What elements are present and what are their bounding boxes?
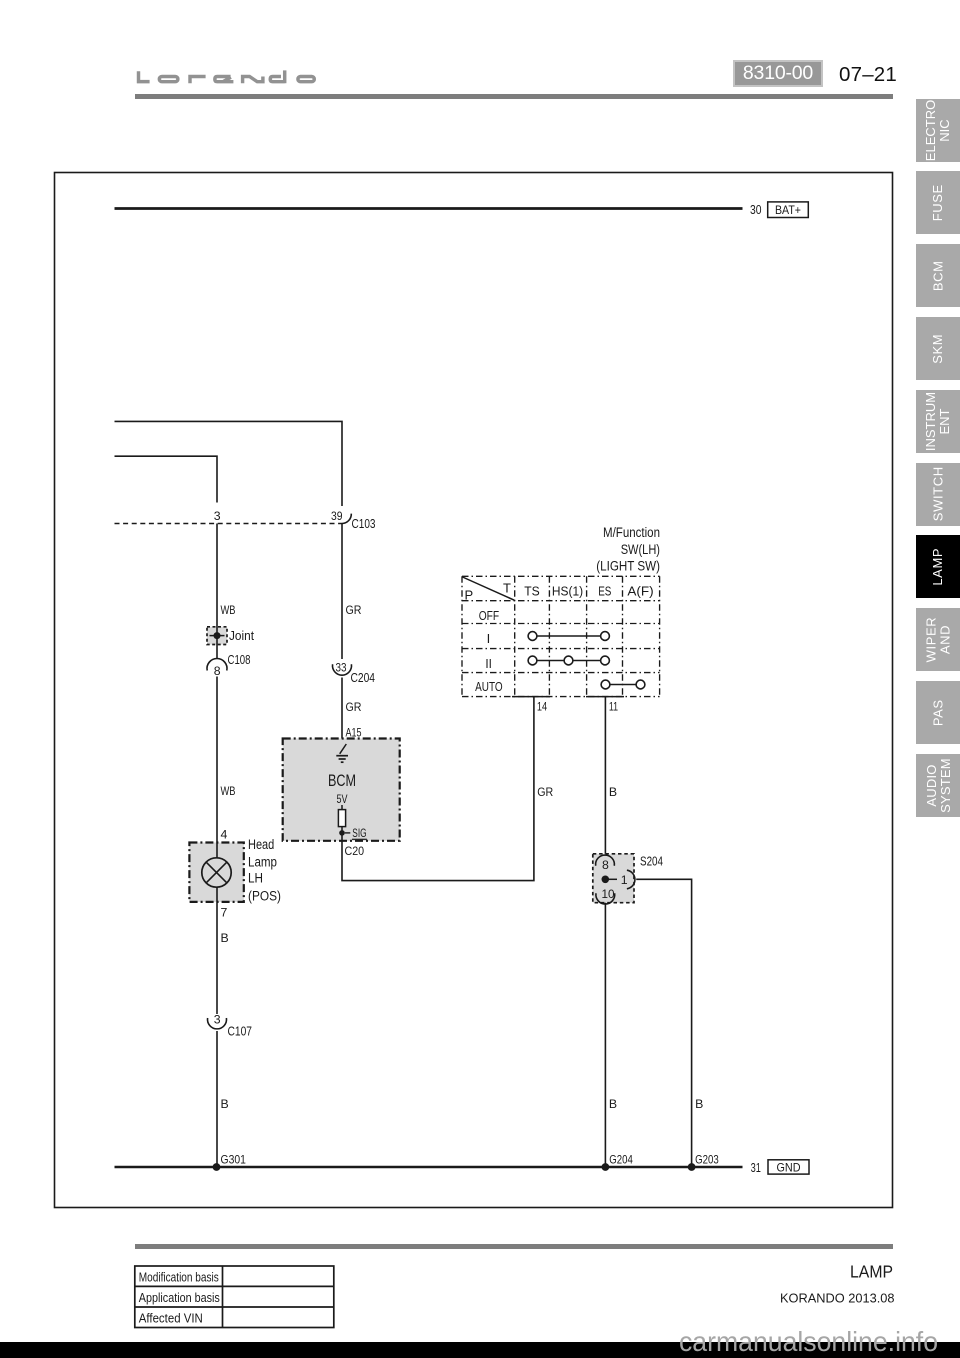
switch row labels — [475, 608, 503, 694]
wire feed B (to C103 pin 3) — [115, 456, 218, 502]
wire resistor to SIG node — [341, 827, 343, 833]
switch exit stubs — [512, 696, 624, 698]
switch column labels — [524, 584, 653, 599]
wire C20 to switch pin 14 — [342, 697, 534, 881]
wire S204 pin10 to G204 — [604, 903, 606, 1167]
joint node dot — [210, 632, 225, 639]
wire pin3 through joint to C108 — [216, 524, 218, 659]
label M/Function SW(LH) (LIGHT SW) — [596, 525, 660, 574]
wire BAT+ rail — [115, 207, 743, 210]
contact row AUTO — [601, 680, 645, 689]
footer rule — [135, 1244, 893, 1249]
wire C107 to G301 — [216, 1031, 218, 1167]
connector C103 arc — [342, 514, 351, 524]
S204 pin 1 arc — [627, 870, 635, 889]
wire pin 11 to S204 — [604, 697, 606, 857]
joint box — [207, 627, 227, 645]
header page number — [839, 63, 897, 87]
S204 junction node — [602, 876, 618, 884]
header rule — [135, 94, 893, 99]
wire 5V to resistor — [341, 805, 343, 810]
sidebar tabs — [916, 99, 960, 162]
wire S204 pin1 to G203 — [636, 879, 691, 1167]
switch header diagonal — [463, 577, 515, 600]
S204 pin 10 arc — [596, 893, 615, 904]
connector C204 arc — [332, 664, 351, 675]
node G204 — [602, 1153, 634, 1171]
wire feed A (to C103 pin 39) — [115, 421, 343, 506]
connector C108 arc — [207, 659, 227, 671]
ground rail — [115, 1166, 743, 1169]
wire C108 to lamp — [216, 677, 218, 843]
node GND box — [768, 1160, 809, 1175]
contact row II — [528, 656, 609, 665]
node G301 — [213, 1153, 247, 1171]
watermark band — [0, 1342, 960, 1358]
diagram frame — [55, 173, 893, 1208]
svg-text:carmanualsonline.info: carmanualsonline.info — [679, 1326, 938, 1357]
label Head Lamp LH (POS) — [248, 837, 281, 904]
resistor pull-up — [338, 810, 345, 827]
lamp symbol — [202, 843, 231, 903]
head lamp LH box — [189, 843, 243, 902]
switch table grid — [462, 576, 660, 696]
joint connector S204 box — [593, 854, 634, 903]
BCM internal switch slash — [340, 744, 347, 754]
wire lamp to C107 — [216, 902, 218, 1014]
BCM internal ground — [336, 756, 348, 763]
connector C103 dashed line — [115, 523, 343, 525]
S204 pin 8 arc — [596, 855, 615, 866]
header code box 8310-00 — [733, 60, 823, 87]
contact row I — [528, 632, 609, 641]
header logo korando — [134, 64, 318, 88]
connector C107 arc — [208, 1018, 227, 1029]
node SIG — [339, 826, 367, 840]
node G203 — [688, 1153, 719, 1171]
wire C103 pin39 to C204 — [341, 524, 343, 660]
wire C204 to BCM A15 — [341, 678, 343, 746]
node BAT+ box — [768, 202, 809, 218]
BCM box — [283, 739, 400, 841]
